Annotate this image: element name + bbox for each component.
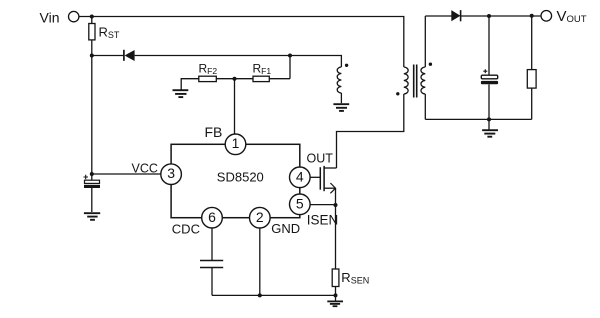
- pin 2 GND: [249, 207, 270, 228]
- svg-text:1: 1: [232, 135, 240, 151]
- wire secondary top riser: [424, 16, 426, 67]
- wire load resistor branch: [531, 16, 533, 119]
- wire RSEN bottom lead: [335, 287, 337, 302]
- svg-text:RF2: RF2: [199, 61, 218, 76]
- resistor RST: [89, 24, 95, 40]
- svg-text:RF1: RF1: [253, 62, 272, 77]
- terminal Vin: [69, 11, 79, 21]
- resistor load output: [527, 70, 536, 89]
- svg-text:Vin: Vin: [40, 10, 60, 26]
- transformer secondary winding: [421, 67, 425, 94]
- svg-text:3: 3: [167, 165, 175, 181]
- junction dot RF1 tap: [288, 54, 292, 58]
- junction dot cap bottom: [487, 117, 491, 121]
- svg-text:CDC: CDC: [172, 222, 200, 237]
- wire output top rail: [425, 15, 540, 17]
- wire bottom ground rail: [212, 294, 336, 296]
- wire gate lead from pin 4: [310, 176, 320, 178]
- capacitor CDC: [200, 261, 223, 268]
- wire output bottom rail: [425, 118, 531, 120]
- diode D2 output rectifier (pointing right): [451, 10, 460, 21]
- wire VCC cap leads: [91, 174, 93, 212]
- svg-text:OUT: OUT: [307, 151, 334, 165]
- wire CDC cap bottom lead: [211, 268, 213, 296]
- svg-text:VOUT: VOUT: [557, 8, 587, 25]
- junction dot VCC node: [90, 172, 94, 176]
- wire RF1 tap drop: [289, 56, 291, 79]
- junction dot load top: [530, 14, 534, 18]
- svg-text:FB: FB: [205, 124, 223, 140]
- transistor Q1 MOSFET: [320, 166, 336, 193]
- svg-text:RST: RST: [99, 25, 120, 41]
- wire GND pin drop: [259, 228, 261, 295]
- junction dot GND rail: [258, 293, 262, 297]
- wire VCC feed: [92, 173, 161, 175]
- IC U1 SD8520 body: [171, 144, 300, 217]
- ground output filter: [482, 130, 498, 137]
- wire output cap branch: [488, 16, 490, 119]
- wire RF2 right lead: [216, 78, 234, 80]
- wire FB riser: [234, 79, 236, 135]
- pin 3 VCC: [161, 164, 182, 185]
- wire RF1 left lead to FB node: [235, 78, 254, 80]
- svg-text:VCC: VCC: [132, 162, 158, 176]
- junction dot cap top: [487, 14, 491, 18]
- svg-text:SD8520: SD8520: [217, 170, 264, 185]
- wire CDC pin drop: [211, 228, 213, 261]
- pin 1 FB: [225, 134, 246, 155]
- wire RF2 left lead to ground: [181, 79, 199, 90]
- wire RF1 right lead: [269, 78, 290, 80]
- ground under VCC cap: [84, 213, 100, 220]
- junction dot FB divider: [233, 77, 237, 81]
- junction dot rail/ground: [334, 293, 338, 297]
- resistor RF2: [199, 76, 217, 81]
- resistor RF1: [253, 76, 269, 81]
- diode D1 bootstrap (pointing left): [124, 50, 135, 61]
- junction dot Vin/RST: [90, 15, 94, 19]
- inductor aux winding: [337, 67, 341, 93]
- transformer primary winding: [404, 67, 408, 94]
- junction dot RST/diode: [90, 54, 94, 58]
- capacitor output filter (polarized): [481, 69, 498, 84]
- svg-text:2: 2: [256, 209, 264, 225]
- svg-text:GND: GND: [271, 221, 300, 236]
- wire top rail from Vin to transformer primary: [79, 17, 404, 68]
- svg-text:RSEN: RSEN: [341, 270, 369, 286]
- wire SEN lead from pin 5: [310, 204, 335, 206]
- ground under aux winding: [333, 104, 349, 111]
- transformer core: [414, 65, 417, 98]
- wire aux winding to ground: [340, 93, 342, 103]
- phase dot aux: [345, 64, 348, 67]
- svg-text:6: 6: [208, 209, 216, 225]
- pin 4 OUT: [290, 167, 311, 188]
- pin 6 CDC: [202, 207, 223, 228]
- wire primary bottom to MOSFET drain: [337, 94, 404, 168]
- wire output ground stem: [488, 119, 490, 130]
- wire bootstrap diode line: [92, 56, 342, 68]
- capacitor VCC bypass (polarized): [84, 175, 101, 188]
- junction dot source/SEN: [334, 203, 338, 207]
- phase dot secondary: [429, 62, 432, 65]
- terminal VOUT: [541, 11, 552, 22]
- wire MOSFET source drop to RSEN: [335, 188, 337, 269]
- resistor RSEN: [332, 269, 339, 287]
- svg-text:5: 5: [296, 195, 304, 211]
- svg-text:ISEN: ISEN: [307, 212, 339, 227]
- wire secondary bottom drop: [424, 94, 426, 119]
- svg-text:4: 4: [296, 168, 304, 184]
- ground at bottom rail right (RSEN): [327, 301, 343, 306]
- pin 5 SEN: [290, 194, 311, 215]
- ground under RF2: [173, 90, 189, 97]
- phase dot primary: [396, 92, 399, 95]
- wire input vertical rail (RST branch): [91, 17, 93, 175]
